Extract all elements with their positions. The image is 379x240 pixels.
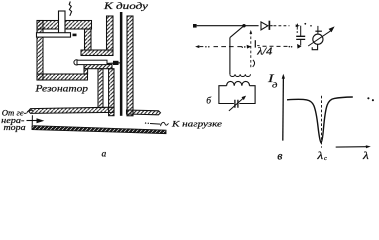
- coax center rod: [120, 12, 123, 116]
- svg-text:Резонатор: Резонатор: [34, 84, 88, 94]
- resonance curve: [287, 97, 353, 143]
- dashed wire after diode: [274, 25, 290, 27]
- dashed line at lambda_c: [321, 96, 323, 148]
- variable capacitor: [235, 100, 238, 108]
- svg-text:в: в: [277, 150, 282, 162]
- label K nagruzke + leader: [145, 122, 146, 123]
- svg-text:λ: λ: [316, 151, 324, 162]
- riser to cavity bottom: [84, 69, 88, 74]
- dash-dot return line: [195, 45, 199, 48]
- branch wire diagonal: [230, 26, 244, 38]
- generator arrow: [27, 120, 38, 122]
- wavemeter box: [219, 86, 255, 104]
- zigzag wire mark above wall: [69, 2, 71, 16]
- capacitor C: [300, 26, 302, 36]
- junction node: [242, 24, 245, 27]
- svg-text:д: д: [272, 81, 278, 90]
- svg-text:с: с: [324, 155, 327, 162]
- coupling loop in slot: [74, 60, 79, 65]
- waveguide bottom wall: [32, 126, 166, 134]
- coax left wall upper: [107, 16, 114, 50]
- meter (galvanometer): [317, 26, 319, 34]
- cavity left wall: [37, 21, 43, 81]
- svg-text:К диоду: К диоду: [103, 1, 148, 11]
- svg-text:тора: тора: [4, 123, 26, 132]
- slot bottom strip: [84, 65, 112, 69]
- cavity right wall upper: [85, 29, 92, 50]
- cavity top wall: [37, 21, 92, 30]
- svg-text:б: б: [206, 95, 212, 106]
- waveguide top wall right: [127, 110, 161, 115]
- cavity bottom wall: [37, 74, 88, 80]
- top wire: [197, 25, 259, 27]
- transformer primary coil: [230, 74, 251, 76]
- dimension arrow at capacitor: [296, 24, 300, 27]
- slot top strip: [81, 50, 113, 56]
- svg-text:λ: λ: [362, 151, 370, 162]
- waveguide top wall left: [29, 107, 115, 113]
- wavemeter coil (secondary): [227, 81, 250, 85]
- y-axis: [282, 76, 285, 141]
- choke ring left side: [98, 69, 103, 108]
- svg-text:λ/4: λ/4: [256, 47, 272, 58]
- svg-text:К нагрузке: К нагрузке: [171, 118, 223, 128]
- x-axis arrow: [336, 146, 367, 148]
- coax left wall lower: [109, 69, 114, 116]
- coax right wall: [127, 16, 133, 116]
- probe through top wall: [59, 11, 66, 34]
- svg-text:а: а: [102, 150, 107, 160]
- lambda/4 dimension dashed line: [250, 32, 252, 69]
- diode D: [261, 22, 268, 30]
- plunger bar inside cavity: [37, 33, 71, 37]
- branch wire vertical: [229, 38, 231, 75]
- circuit: left terminal: [193, 24, 197, 28]
- curve continuation dots: [367, 97, 369, 99]
